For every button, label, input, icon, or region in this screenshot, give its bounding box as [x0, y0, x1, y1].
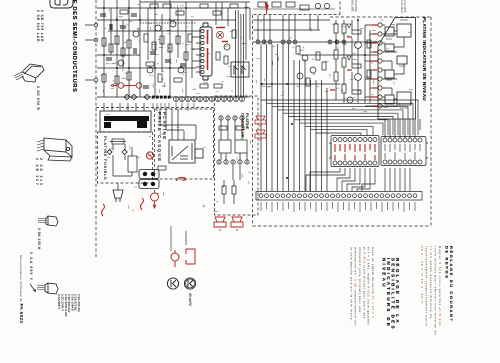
heading REGLAGE DE LA SENSIBILITE	[381, 258, 399, 331]
commut HP interior: junction circles row	[219, 116, 244, 120]
resistor R group preamp col1	[102, 36, 131, 84]
connector CN-B (dual row, black labels)	[381, 137, 428, 166]
label 2SB755/2SB646	[36, 10, 44, 42]
main amp board dashed border bottom	[253, 225, 432, 227]
transformer winding bar 2 (solid)	[104, 122, 111, 128]
transistor package outline 2SD313 (large TO-3P 3D view)	[37, 138, 72, 161]
resistor top-left preamp	[120, 10, 128, 14]
fusible wires	[113, 144, 132, 176]
diode marks output	[347, 24, 351, 60]
board name PLATINE FUSIBLE	[103, 136, 107, 181]
board name PLATINE PRISE CASQUE	[157, 112, 167, 162]
resistor R group top row	[150, 4, 238, 15]
label 2SD636R	[36, 86, 40, 111]
casque board interior: headphone jack J	[169, 140, 203, 163]
red flex wire squiggle right	[141, 198, 144, 210]
resistor cluster right of IC	[216, 52, 220, 60]
power supply dashed box (top, cut off)	[254, 0, 341, 15]
red flex wire squiggle left	[102, 204, 105, 216]
niveau board dashed border top	[330, 16, 431, 18]
pointer arrow for 2SA985 label	[30, 284, 36, 292]
wire verticals preamp	[104, 0, 192, 97]
output stage verticals	[336, 20, 370, 103]
transformer core bar (solid)	[137, 117, 147, 128]
body text courant de repos	[419, 246, 442, 336]
commut junction circles row 2	[217, 160, 249, 164]
commut wires	[221, 120, 247, 180]
resistor R group preamp col2	[144, 34, 192, 82]
connector circled pins	[174, 97, 245, 102]
DIN socket symbol left	[167, 278, 178, 289]
CN-B pin circles top row	[383, 138, 422, 142]
black connector CN (two-pin, upper)	[139, 170, 159, 179]
commut HP relay K2	[235, 140, 247, 153]
black connector CN (two-pin, lower)	[139, 180, 159, 189]
fusible board interior: fuse F1	[112, 139, 124, 144]
red pin labels niveau	[371, 25, 377, 106]
supply box interior components	[258, 2, 267, 7]
capacitor near top-left preamp	[100, 14, 112, 30]
platine prise casque dashed box	[155, 109, 214, 179]
board name PLATINE INDICATEUR DE NIVEAU	[422, 17, 427, 101]
niveau board dashed border right	[430, 17, 432, 226]
component value labels (illegible small print)	[101, 4, 413, 211]
harness: long vertical wires amp to bottom connector	[261, 44, 327, 191]
driver resistors	[296, 46, 300, 54]
bottom connector strip CN-C	[256, 192, 422, 201]
platine commut HP dashed box	[215, 96, 259, 215]
platine fusible dashed box	[98, 132, 153, 183]
power amp bus wires	[253, 20, 378, 84]
preamp bus wires	[97, 2, 250, 68]
mains cable to plug	[117, 183, 119, 190]
DIN socket symbol right	[184, 278, 195, 289]
harness: nested bundle lower (connector to strip)	[306, 168, 410, 191]
transistor Q (red ringed) right of IC	[216, 31, 223, 38]
CN-A pin circles bottom row	[333, 161, 377, 165]
misc junction dots	[103, 7, 366, 179]
red rotate arrow (volume)	[176, 177, 186, 181]
harness: nested wire bundle upper	[261, 100, 418, 135]
transformer lead wires	[104, 103, 144, 111]
label 2SD313/2SB507	[35, 158, 43, 187]
fusible junction diamonds	[107, 150, 127, 155]
wires casque area down to DIN	[171, 226, 186, 251]
heading REGLAGE DU COURANT DE REPOS	[444, 246, 453, 323]
mains plug P	[113, 190, 123, 202]
red value label near Q	[216, 28, 228, 42]
dashed signal wire	[140, 22, 196, 24]
CN-B pin circles bottom row	[383, 160, 422, 164]
transformer winding bar (solid)	[104, 116, 149, 121]
casque resistor	[158, 166, 166, 170]
niveau board wires	[382, 25, 404, 106]
junction pins row power amp	[256, 40, 346, 44]
CN-B wires up to niveau board	[385, 119, 420, 138]
wires amp to niveau connector	[365, 25, 378, 106]
main board left dashed border	[95, 0, 97, 258]
transistor type list	[57, 294, 80, 317]
label 40 mV/V	[188, 293, 192, 306]
footer Documentation technique	[19, 255, 24, 323]
output transistors Q	[355, 42, 362, 49]
red loudspeaker HP right pair	[214, 217, 243, 230]
fusible relay box	[128, 156, 137, 172]
red headphone jack outline symbol	[186, 249, 195, 264]
small type list top right	[400, 0, 406, 13]
CN-B pin name labels	[385, 144, 420, 159]
transistor package outline 2SB755 (top-left, cut off)	[50, 0, 73, 8]
transistor Q2 near IC	[224, 44, 230, 50]
label 2SA985Y	[29, 252, 33, 281]
wires from supply box down	[258, 15, 318, 40]
junction diamonds on row	[124, 94, 150, 99]
red test point labels amp	[330, 37, 352, 90]
transistor Q circles preamp	[133, 31, 139, 37]
connector CN-A (dual row, red labels)	[329, 136, 379, 167]
relay / switch box S1	[231, 62, 249, 77]
niveau board IC boxes	[385, 24, 411, 105]
body text sensibilite	[349, 247, 375, 326]
board edge connector pins on dashed border	[94, 23, 98, 27]
IC U1 pin circles	[201, 29, 204, 73]
connector filled pins	[152, 96, 171, 99]
casque wires	[160, 109, 196, 140]
red adjust arrow (bias pots)	[111, 83, 142, 89]
IC pin wires	[192, 31, 200, 72]
connector row line y97	[97, 96, 250, 98]
CN-A pin circles top row	[333, 138, 377, 142]
power transformer T outline	[100, 111, 151, 132]
niveau board solid outline with cut corner	[378, 18, 416, 120]
red pilot lamp symbol	[151, 190, 159, 208]
wire stubs left of border	[85, 25, 94, 80]
commut lower components	[222, 186, 226, 194]
IC U1 red type marking	[207, 30, 209, 70]
capacitor C marks preamp	[106, 14, 186, 88]
red adjustment flag	[265, 1, 269, 13]
wire bundle 4 verticals to lower boards	[236, 10, 244, 97]
label 2SK105H	[37, 228, 41, 250]
IC U1 (vertical DIP with red marking)	[200, 23, 212, 80]
niveau board input pin circles	[378, 23, 382, 108]
output emitter resistors extra	[367, 40, 371, 48]
transistor package outline 2SD636 (angled TO-220)	[14, 64, 44, 82]
output stage resistors	[334, 24, 338, 33]
main amp board dashed border left	[252, 15, 254, 226]
pin stub labels under row	[153, 103, 194, 111]
title BROCHAGE DES SEMI-CONDUCTEURS	[71, 0, 77, 93]
preamp board bottom dashed border	[96, 107, 214, 109]
CN-C pin labels below	[261, 202, 415, 212]
commut HP relay K1	[219, 140, 231, 153]
commut resistors	[219, 126, 227, 130]
red prohibition symbol (casque)	[146, 152, 153, 159]
driver stage transistors	[302, 55, 308, 61]
niveau board small text marks	[386, 20, 408, 108]
small note top middle	[350, 0, 357, 12]
transistor package outline 2SA333 group (bottom TO-92 3D)	[37, 283, 58, 294]
transistor package outline 2SK105 (small TO-92 3D)	[38, 216, 58, 226]
wire verticals right of IC	[216, 2, 250, 60]
CN-C pins	[259, 194, 417, 198]
board name PLATINE COMMUT HP	[240, 113, 249, 138]
CN-A red pin name labels	[335, 144, 375, 160]
red headphone plug symbol	[171, 250, 179, 267]
resistor pair below IC	[200, 84, 208, 88]
red loudspeaker HP left pair	[255, 116, 266, 140]
